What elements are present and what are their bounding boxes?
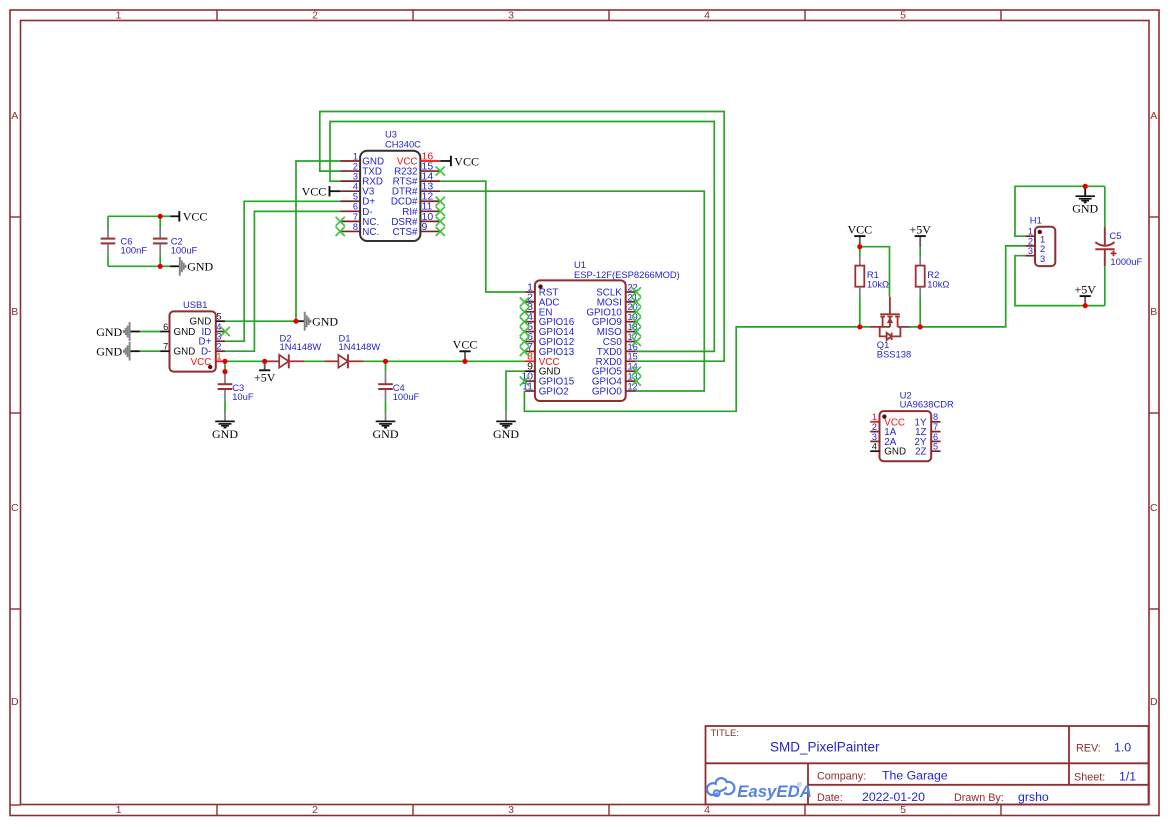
svg-text:GND: GND <box>187 260 213 274</box>
svg-text:GND: GND <box>312 315 338 329</box>
connector USB1 <box>160 299 225 371</box>
wire U3 D- to USB1 D- <box>225 211 340 351</box>
wire GND rail C6-C2 bottom <box>108 265 160 267</box>
svg-text:2022-01-20: 2022-01-20 <box>862 790 925 804</box>
svg-text:Sheet:: Sheet: <box>1074 772 1105 784</box>
VCC power flag at U3 pin 4 V3 <box>302 185 341 199</box>
svg-text:8: 8 <box>933 412 938 422</box>
no-connect X on U3 pins 7 8 <box>336 217 345 226</box>
resistor R1 <box>855 247 889 327</box>
svg-text:Company:: Company: <box>817 771 866 783</box>
svg-text:5: 5 <box>353 192 358 202</box>
junction GND rail <box>1083 184 1088 189</box>
svg-text:GND: GND <box>1072 201 1098 215</box>
svg-text:1000uF: 1000uF <box>1110 256 1142 267</box>
svg-text:3: 3 <box>1040 253 1045 264</box>
no-connect X on U1 left pins <box>520 297 529 306</box>
capacitor C4 <box>378 361 419 421</box>
svg-text:GND: GND <box>96 345 122 359</box>
VCC power flag at C2 <box>160 210 207 224</box>
svg-text:5: 5 <box>900 10 906 22</box>
svg-text:4: 4 <box>704 10 710 22</box>
svg-text:6: 6 <box>163 322 168 332</box>
svg-text:5: 5 <box>933 442 938 452</box>
wire +5V rail bottom <box>1015 305 1105 307</box>
+5V power flag at H1 rail <box>1074 282 1096 305</box>
svg-text:1: 1 <box>116 804 122 816</box>
wire H1 pin1 to GND rail <box>1015 186 1105 236</box>
svg-text:GND: GND <box>174 327 196 338</box>
junction C6-C2 GND <box>158 264 163 269</box>
svg-text:GPIO0: GPIO0 <box>592 387 622 398</box>
junction C6-C2 VCC <box>158 214 163 219</box>
svg-text:D: D <box>11 696 19 708</box>
svg-text:H1: H1 <box>1030 214 1042 225</box>
wire U3 D+ to USB1 D+ <box>225 201 340 341</box>
GND port at USB1 pin 5 net <box>296 312 338 331</box>
svg-text:GND: GND <box>884 447 906 458</box>
junction +5V rail <box>1083 303 1088 308</box>
wire VCC rail C6-C2 top <box>108 215 160 217</box>
svg-text:REV:: REV: <box>1076 743 1101 755</box>
svg-text:10kΩ: 10kΩ <box>867 278 889 289</box>
svg-text:TITLE:: TITLE: <box>711 728 740 739</box>
junction VCC R1 <box>857 244 862 249</box>
GND port at USB1 pin 6 <box>96 322 160 341</box>
wire USB1 pin5 GND to port <box>225 320 296 322</box>
svg-text:1: 1 <box>116 10 122 22</box>
svg-text:GND: GND <box>493 427 519 441</box>
wire U1 GND pin9 to earth <box>506 371 525 411</box>
svg-text:1: 1 <box>1028 227 1033 237</box>
IC U2 UA9638CDR <box>870 390 954 462</box>
svg-text:VCC: VCC <box>454 154 479 168</box>
ground earth at H1 GND rail <box>1072 186 1098 215</box>
svg-text:4: 4 <box>353 182 358 192</box>
svg-text:CH340C: CH340C <box>385 138 421 149</box>
svg-text:3: 3 <box>872 432 877 442</box>
svg-text:2: 2 <box>872 422 877 432</box>
junction R1 drain rail <box>857 324 862 329</box>
svg-text:The Garage: The Garage <box>882 769 948 783</box>
svg-text:VCC: VCC <box>847 222 872 236</box>
svg-text:GND: GND <box>174 347 196 358</box>
svg-text:B: B <box>11 306 18 318</box>
svg-text:4: 4 <box>872 442 877 452</box>
transistor Q1 BSS138 <box>870 297 911 359</box>
svg-text:15: 15 <box>628 352 638 362</box>
svg-text:2: 2 <box>312 804 318 816</box>
wire D1 to U1 VCC <box>364 360 526 362</box>
no-connect X on USB1 pin 4 <box>221 327 230 336</box>
svg-text:GND: GND <box>373 427 399 441</box>
svg-text:4: 4 <box>704 804 710 816</box>
svg-text:A: A <box>1150 110 1157 122</box>
wire U3 RXD to U1 TXD0 <box>330 122 714 352</box>
svg-text:VCC: VCC <box>183 210 208 224</box>
connector H1 <box>1025 214 1055 266</box>
VCC power flag at R1 <box>847 222 872 246</box>
svg-text:Drawn By:: Drawn By: <box>954 792 1004 804</box>
svg-text:GPIO2: GPIO2 <box>539 387 569 398</box>
capacitor C3 <box>218 361 254 421</box>
IC U3 CH340C <box>340 129 440 241</box>
svg-text:6: 6 <box>933 432 938 442</box>
svg-text:5: 5 <box>216 312 221 322</box>
GND port at USB1 pin 7 <box>96 342 160 361</box>
svg-text:3: 3 <box>353 172 358 182</box>
svg-text:1/1: 1/1 <box>1119 770 1136 784</box>
svg-text:1: 1 <box>216 352 221 362</box>
svg-text:3: 3 <box>508 10 514 22</box>
svg-text:2Z: 2Z <box>915 447 926 458</box>
VCC power flag at U3 pin 16 <box>440 154 479 168</box>
svg-text:CTS#: CTS# <box>392 227 418 238</box>
svg-text:®: ® <box>797 782 802 789</box>
no-connect X on U1 right pins <box>632 287 641 296</box>
junction C4 top <box>383 359 388 364</box>
+5V power flag at R2 <box>909 222 931 247</box>
svg-text:GND: GND <box>96 325 122 339</box>
title block <box>706 726 1149 805</box>
svg-text:7: 7 <box>163 342 168 352</box>
svg-text:16: 16 <box>628 342 638 352</box>
svg-text:1: 1 <box>872 412 877 422</box>
wire U3 RTS# to U1 RST <box>440 181 525 292</box>
svg-text:C: C <box>1150 502 1158 514</box>
ground earth at U1 pin 9 <box>493 411 519 440</box>
svg-text:3: 3 <box>508 804 514 816</box>
wire U1 GPIO2 to Q1 rail <box>524 327 870 411</box>
svg-text:UA9638CDR: UA9638CDR <box>900 399 954 410</box>
ground earth at C3 <box>215 421 235 427</box>
GND port at C2 <box>160 257 213 276</box>
svg-text:VCC: VCC <box>302 185 327 199</box>
wire R1 gate branch <box>860 247 890 297</box>
svg-text:C5: C5 <box>1110 230 1122 241</box>
capacitor C5 1000uF <box>1095 186 1142 305</box>
junction R2 source rail <box>918 324 923 329</box>
junction GND net at USB1 pin5 <box>293 319 298 324</box>
svg-text:12: 12 <box>628 381 638 391</box>
capacitor C6 <box>101 216 148 266</box>
svg-text:GND: GND <box>212 427 238 441</box>
svg-text:BSS138: BSS138 <box>877 348 911 359</box>
svg-text:3: 3 <box>216 332 221 342</box>
svg-text:B: B <box>1150 306 1157 318</box>
svg-text:C: C <box>11 502 19 514</box>
+5V power flag at USB1 VCC <box>254 361 276 384</box>
svg-text:3: 3 <box>1028 246 1033 256</box>
svg-text:Date:: Date: <box>817 792 843 804</box>
svg-text:100uF: 100uF <box>393 391 420 402</box>
ground earth at C4 <box>376 421 396 427</box>
svg-text:1: 1 <box>353 151 358 161</box>
svg-text:USB1: USB1 <box>183 299 208 310</box>
diode D2 1N4148W <box>267 332 321 368</box>
svg-text:2: 2 <box>216 342 221 352</box>
svg-text:VCC: VCC <box>453 338 478 352</box>
svg-text:2: 2 <box>312 10 318 22</box>
junction at USB1 VCC <box>222 359 227 364</box>
svg-text:NC.: NC. <box>362 227 379 238</box>
IC U1 ESP-12F(ESP8266MOD) <box>521 259 679 401</box>
svg-text:A: A <box>11 110 18 122</box>
svg-text:1.0: 1.0 <box>1114 741 1131 755</box>
no-connect X on U3 right pins <box>436 166 445 175</box>
wire between D2 and D1 <box>304 360 325 362</box>
svg-text:7: 7 <box>933 422 938 432</box>
svg-text:8: 8 <box>353 222 358 232</box>
junction C3 top <box>222 369 227 374</box>
svg-text:10uF: 10uF <box>232 391 254 402</box>
svg-text:SMD_PixelPainter: SMD_PixelPainter <box>770 740 880 755</box>
wire USB1 VCC rail <box>225 360 267 362</box>
wire Q1 to H1 pin2 <box>909 246 1026 327</box>
wire U3 DTR# to U1 GPIO0 <box>440 191 704 391</box>
svg-text:grsho: grsho <box>1018 790 1049 804</box>
wire U3 GND net <box>296 161 340 321</box>
svg-text:100nF: 100nF <box>121 245 148 256</box>
wire H1 pin3 to +5V rail <box>1015 256 1105 306</box>
junction VCC at U1 <box>462 359 467 364</box>
EasyEDA logo <box>707 778 812 801</box>
junction +5V flag <box>262 359 267 364</box>
svg-text:1N4148W: 1N4148W <box>339 341 381 352</box>
svg-text:100uF: 100uF <box>171 245 198 256</box>
svg-text:ESP-12F(ESP8266MOD): ESP-12F(ESP8266MOD) <box>574 269 680 280</box>
svg-text:2: 2 <box>353 161 358 171</box>
svg-text:9: 9 <box>422 221 428 233</box>
capacitor C2 <box>153 216 198 266</box>
svg-text:5: 5 <box>900 804 906 816</box>
svg-text:6: 6 <box>353 202 358 212</box>
svg-text:+5V: +5V <box>1074 282 1096 296</box>
svg-text:7: 7 <box>353 212 358 222</box>
VCC power flag at U1 pin 8 <box>453 338 478 362</box>
diode D1 1N4148W <box>325 332 381 368</box>
svg-text:D: D <box>1150 696 1158 708</box>
resistor R2 <box>916 247 950 327</box>
svg-text:+5V: +5V <box>909 222 931 236</box>
svg-text:2: 2 <box>1028 236 1033 246</box>
svg-text:1N4148W: 1N4148W <box>280 341 322 352</box>
svg-text:10kΩ: 10kΩ <box>927 278 949 289</box>
svg-text:+5V: +5V <box>254 371 276 385</box>
wire U3 TXD to U1 RXD0 <box>320 112 724 362</box>
